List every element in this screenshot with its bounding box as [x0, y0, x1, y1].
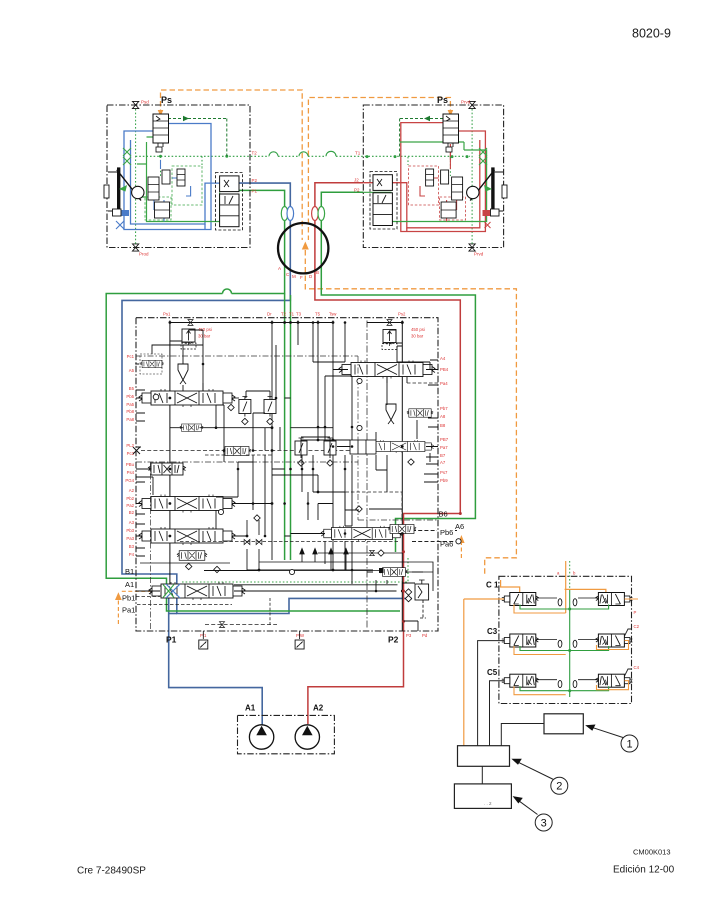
- main control valve: port labels left column: [125, 354, 134, 557]
- svg-text:B8: B8: [440, 423, 446, 428]
- valve: counterbalance right block: [370, 172, 397, 230]
- wire: straight travel supply loop: [204, 562, 433, 591]
- wire: orange feed to C1 row: [464, 580, 606, 599]
- svg-text:PfW: PfW: [296, 633, 305, 638]
- valve: boom spool row left: [139, 389, 239, 407]
- solenoid valve row C5 left: [502, 674, 539, 687]
- valve: Pc1 pilot valve: [135, 354, 163, 374]
- callout circle 2: [551, 777, 568, 794]
- svg-text:T1: T1: [355, 151, 361, 156]
- valve: center cartridge valves right block: [426, 169, 463, 218]
- svg-text:B6: B6: [439, 510, 448, 519]
- junction dots top manifold: [169, 321, 404, 324]
- svg-text:Pb8: Pb8: [126, 409, 134, 414]
- port labels B1 A1 Pb1 Pa1: [122, 567, 135, 615]
- symbol: green arrow into motor left: [118, 183, 127, 192]
- svg-text:A3: A3: [129, 520, 135, 525]
- valve: pressure compensators row left: [228, 397, 276, 425]
- wire: exit labels right block: [354, 151, 361, 193]
- solenoid valve row C5 right: [596, 674, 633, 687]
- main valve: T5 and Tsw risers: [298, 321, 333, 571]
- svg-text:P3: P3: [406, 633, 412, 638]
- main valve: secondary interconnect verticals: [203, 323, 430, 592]
- svg-text:A1: A1: [125, 580, 134, 589]
- svg-text:Pb6: Pb6: [440, 528, 453, 537]
- valve: swing spool row A3: [139, 527, 235, 545]
- valve: Ps4 spool: [149, 463, 186, 475]
- wire: black stub C2: [625, 629, 632, 636]
- svg-text:A6: A6: [455, 522, 464, 531]
- svg-text:. . 2: . . 2: [484, 801, 492, 806]
- labels C1 C3 C5: [486, 581, 499, 678]
- wire: black feed to C3 row: [478, 641, 506, 746]
- valve: relief left 450psi: [181, 320, 212, 349]
- solenoid valve row C3 left: [502, 634, 539, 647]
- svg-text:P2: P2: [354, 188, 360, 193]
- solenoid valve row C3 right: [596, 634, 633, 647]
- wire: red dashed boxes around cartridges right: [409, 166, 466, 220]
- valve Psd crossing left block top: [132, 100, 149, 109]
- wire: green tank riser T2 in main valve: [284, 294, 286, 561]
- labels A1 A2 pumps: [245, 704, 324, 713]
- svg-text:C 1: C 1: [486, 581, 499, 590]
- svg-text:Ps: Ps: [437, 95, 448, 105]
- component box 2: [458, 746, 510, 767]
- svg-text:T2: T2: [252, 151, 258, 156]
- svg-text:P2: P2: [252, 178, 258, 183]
- wire: green pilot dotted to A6 valve: [180, 558, 408, 582]
- junction dots main valve: [169, 321, 404, 592]
- main valve: top manifold line: [170, 322, 402, 324]
- wire: orange link row C5: [514, 681, 629, 695]
- svg-text:30 bar: 30 bar: [198, 334, 211, 339]
- symbol: green shuttle arrows left block: [123, 148, 131, 165]
- svg-text:Pa7: Pa7: [440, 445, 448, 450]
- svg-text:Pd: Pd: [422, 633, 428, 638]
- wire: green link row C1: [520, 605, 609, 610]
- svg-text:Ps: Ps: [161, 95, 172, 105]
- valve: arm spool row A2: [139, 495, 235, 513]
- valve: load check cone right: [386, 404, 396, 424]
- main valve: Dr riser: [271, 321, 273, 561]
- main valve: secondary interconnect horizontals: [136, 345, 438, 631]
- main control valve: port labels top: [163, 312, 406, 317]
- wire: green link row C3: [520, 646, 609, 651]
- wire: green pilot dashed Pi right block: [400, 119, 443, 157]
- pump A1: [249, 725, 273, 749]
- wire: green travel line left block across to main valve: [106, 190, 400, 611]
- valve: brake shuttle right block: [443, 114, 459, 152]
- valve: twin check bowties center bottom: [244, 520, 262, 570]
- svg-text:2: 2: [556, 781, 562, 793]
- svg-text:Pb7: Pb7: [440, 406, 448, 411]
- node labels C2 C4 P: [634, 610, 640, 670]
- svg-text:450 psi: 450 psi: [198, 327, 212, 332]
- svg-text:Pb1: Pb1: [122, 594, 135, 603]
- svg-text:B2: B2: [129, 510, 135, 515]
- orifices row C5: [536, 680, 599, 688]
- valve: small pilot spool left: [180, 424, 203, 431]
- svg-text:Ps2: Ps2: [398, 312, 406, 317]
- wire: green pilot dotted from Prvd down: [471, 109, 473, 244]
- svg-text:30 bar: 30 bar: [411, 334, 424, 339]
- wire: exit labels left block: [252, 151, 258, 194]
- symbol: blue arrows below brake left: [116, 221, 124, 229]
- wire: orange link row C1: [514, 599, 638, 613]
- symbol: check diamonds main valve: [254, 459, 414, 602]
- motor M-right swashplate: [467, 167, 507, 215]
- wire: PL2 pilot dashed row: [141, 450, 360, 452]
- valve: pilot reducing valve P2 side: [415, 580, 429, 618]
- valve: aux spool above A1: [140, 551, 230, 573]
- svg-text:T1: T1: [289, 312, 295, 317]
- valve: brake shuttle left block: [153, 114, 169, 152]
- wire: link box2 to box3: [481, 766, 483, 784]
- svg-text:Pa4: Pa4: [440, 381, 448, 386]
- svg-text:Cre 7-28490SP: Cre 7-28490SP: [77, 866, 146, 877]
- pump block: border: [238, 715, 335, 753]
- symbol: green shuttle arrows right block: [479, 148, 487, 165]
- svg-text:B3: B3: [129, 544, 135, 549]
- wire: pilot stubs a b above solenoid block: [557, 561, 576, 697]
- svg-text:Pa8: Pa8: [126, 417, 134, 422]
- symbol: green arrow into motor right: [484, 185, 492, 192]
- symbol: port circles on lines: [218, 378, 461, 574]
- svg-text:A: A: [278, 266, 281, 271]
- svg-text:P2: P2: [388, 635, 399, 645]
- orifices row C3: [536, 640, 599, 648]
- svg-text:Pb9: Pb9: [440, 478, 448, 483]
- wire: Ps7 pilot line with check: [318, 550, 403, 556]
- symbol: filter PfW: [295, 631, 304, 649]
- orifices row C1: [536, 598, 599, 606]
- svg-text:Dr: Dr: [267, 312, 272, 317]
- wire: green pilot dashed Pi left block: [168, 119, 227, 157]
- wire: pilot dash-dot internals: [136, 356, 438, 631]
- svg-text:P1: P1: [252, 189, 258, 194]
- svg-text:Pc1: Pc1: [127, 354, 135, 359]
- wire: orange pilot Pa1 stub with arrow: [118, 591, 160, 624]
- wire: green link row C5: [520, 686, 609, 691]
- page number 8020-9: [632, 27, 671, 41]
- main valve: center divider dash-dot: [366, 321, 368, 629]
- svg-text:A2: A2: [129, 488, 135, 493]
- valve: brake piston left block: [113, 209, 130, 216]
- wire: red motor loop outer right block: [363, 123, 485, 232]
- wire: orange link row C3: [514, 641, 629, 655]
- junction: hop bumps on T line: [269, 151, 336, 156]
- valve Prvd crossing right block bottom: [469, 244, 484, 257]
- wire: orange pilot Ps right to solenoid block (dashed): [308, 98, 450, 241]
- wire: red travel line right block to B6 and pump A2: [308, 183, 460, 724]
- wire: blue inner links left block: [154, 160, 191, 222]
- svg-text:Pa2: Pa2: [126, 503, 134, 508]
- wire: orange arrowhead into Ps valve left: [158, 110, 164, 117]
- label Ps right: [437, 95, 448, 105]
- motor M-left swashplate: [104, 167, 144, 215]
- main control valve: border: [136, 318, 438, 631]
- valve: travel left spool A1: [149, 582, 245, 600]
- valve: load check cone left: [178, 364, 188, 384]
- wire: blue pump line P1 to pump A1: [169, 598, 263, 727]
- valve: compensators right row: [295, 438, 336, 466]
- symbol: filter Pf1: [199, 631, 208, 649]
- svg-text:3: 3: [541, 818, 547, 830]
- valve: small valve right Pb7: [407, 409, 433, 417]
- svg-text:Prod: Prod: [139, 252, 149, 257]
- wire: orange pilot through swivel to solenoid block (dashed): [305, 250, 516, 576]
- wire: green motor loop right block: [363, 142, 486, 222]
- svg-text:1: 1: [626, 739, 632, 751]
- svg-text:8020-9: 8020-9: [632, 27, 671, 41]
- wire: green travel line right block to B6 area: [321, 192, 475, 552]
- junction dots on P2 riser: [402, 512, 462, 623]
- svg-text:C2: C2: [634, 624, 640, 629]
- svg-text:Pb2: Pb2: [126, 496, 134, 501]
- svg-text:J2: J2: [354, 178, 359, 183]
- symbol: red arrows below brake right: [485, 222, 491, 228]
- callout arrow 3: [513, 796, 538, 814]
- svg-text:Pb3: Pb3: [126, 528, 134, 533]
- svg-text:Prvd: Prvd: [474, 252, 484, 257]
- callout arrow 2: [511, 759, 553, 780]
- valve: brake piston right block: [483, 209, 500, 216]
- footer Edicion 12-00: [613, 865, 675, 876]
- component box 1: [544, 714, 583, 734]
- svg-text:T5: T5: [315, 312, 321, 317]
- main valve: interconnect lines: [136, 330, 438, 591]
- wire: Pb6 Pa6 pilot dashes: [412, 531, 457, 542]
- component box 3: [454, 784, 511, 809]
- svg-text:A5: A5: [129, 368, 135, 373]
- svg-text:F: F: [300, 275, 303, 280]
- valve: counterbalance left block: [216, 173, 243, 231]
- junction: swivel loops on travel lines: [281, 207, 324, 221]
- swivel joint circle: [278, 223, 328, 273]
- footer Cre 7-28490SP: [77, 866, 146, 877]
- svg-text:P4: P4: [129, 552, 135, 557]
- wire: orange arrowhead in swivel: [302, 242, 309, 250]
- svg-text:A1: A1: [245, 704, 256, 713]
- footer CM00K013: [633, 848, 671, 857]
- wire: black link box1 to solenoid block: [501, 724, 544, 746]
- main control valve: bottom labels P1 P2: [166, 635, 399, 645]
- svg-text:Pa1: Pa1: [122, 606, 135, 615]
- svg-text:Prvd: Prvd: [461, 100, 471, 105]
- svg-text:Ps1: Ps1: [163, 312, 171, 317]
- svg-text:C3: C3: [487, 627, 498, 636]
- svg-text:A2: A2: [313, 704, 324, 713]
- svg-text:Pa5: Pa5: [126, 402, 134, 407]
- svg-text:PBu: PBu: [126, 462, 135, 467]
- symbol: pilot check arrows row: [300, 549, 348, 571]
- wire: black feed to C5 row: [490, 681, 507, 746]
- wire: blue travel line left block to main valve P1 side: [122, 183, 412, 613]
- svg-text:Tsw: Tsw: [329, 312, 337, 317]
- wire: green motor loop left block: [134, 131, 220, 222]
- wire: green tank riser T1 in main valve: [290, 295, 292, 560]
- valve: dipper spool row right: [350, 440, 434, 454]
- svg-text:T3: T3: [296, 312, 302, 317]
- wire: pilot dashed internals: [136, 383, 438, 605]
- wire: orange pilot Ps left (dashed): [161, 90, 303, 240]
- wire: green dashed boxes around cartridges left: [145, 166, 202, 220]
- wire: green pilot dotted inner right block: [408, 157, 450, 176]
- svg-text:C4: C4: [634, 665, 640, 670]
- port labels B6 A6 Pb6 Pa6: [439, 510, 465, 549]
- svg-text:B5: B5: [129, 386, 135, 391]
- svg-text:P1: P1: [166, 635, 177, 645]
- main valve: P1 supply riser: [169, 321, 171, 586]
- node labels at swivel ports: [278, 266, 319, 280]
- svg-text:A7: A7: [440, 460, 446, 465]
- valve: bucket spool row right top: [339, 361, 435, 379]
- solenoid valve row C1 right: [596, 593, 633, 606]
- wire: green pilot dotted inner left block: [161, 156, 203, 176]
- svg-text:PB7: PB7: [440, 437, 449, 442]
- svg-text:Psd: Psd: [141, 100, 149, 105]
- valve: relief right 450psi: [382, 320, 425, 350]
- valve: PL2 spool: [223, 447, 251, 456]
- wire: green pilot dotted T2-T1 between travel blocks: [136, 155, 470, 157]
- wire: orange feed from pressure switch box: [463, 599, 465, 746]
- wire: bottom pilot dashed row with bowtie: [205, 598, 277, 627]
- svg-text:PG4: PG4: [125, 478, 134, 483]
- svg-text:T2: T2: [281, 312, 287, 317]
- travel motor block right: border: [363, 105, 503, 248]
- main control valve: port labels right column: [440, 356, 449, 483]
- valve: B6 spool row: [321, 526, 403, 541]
- valve Prod crossing left block bottom: [132, 244, 149, 257]
- svg-text:A4: A4: [440, 356, 446, 361]
- svg-text:B1: B1: [125, 567, 134, 576]
- svg-text:Ps4: Ps4: [127, 470, 135, 475]
- svg-text:450 psi: 450 psi: [411, 327, 425, 332]
- svg-text:B7: B7: [440, 453, 446, 458]
- valve Prvd crossing right block top: [461, 100, 475, 109]
- travel motor block left: border: [107, 105, 250, 248]
- wire: red inner links right block: [420, 160, 457, 222]
- svg-text:Pa3: Pa3: [126, 536, 134, 541]
- svg-text:PB4: PB4: [440, 367, 449, 372]
- junction dots green center: [568, 608, 571, 693]
- valve: center cartridge valves left block: [148, 169, 185, 218]
- wire: blue motor loop outer left block: [124, 124, 239, 230]
- junction dots secondary: [202, 321, 378, 592]
- svg-text:B: B: [316, 270, 319, 275]
- junction dots on T1 line: [159, 155, 469, 158]
- wire: orange arrowhead into Ps valve right: [448, 110, 454, 117]
- label Ps left: [161, 95, 172, 105]
- svg-text:Edición 12-00: Edición 12-00: [613, 865, 675, 876]
- wire: orange pilot A6 stub with arrow: [460, 542, 462, 558]
- pump A2: [295, 725, 319, 749]
- wire: black stub C4: [625, 669, 632, 676]
- callout circle 1: [621, 735, 638, 752]
- svg-text:M: M: [292, 274, 296, 279]
- valve: straight travel spool: [379, 568, 407, 577]
- svg-text:Pa6: Pa6: [440, 540, 453, 549]
- solenoid valve block: border: [499, 576, 632, 703]
- svg-text:A8: A8: [440, 414, 446, 419]
- wire: green pilot dotted from Psd down: [135, 109, 137, 244]
- callout arrow 1: [585, 725, 626, 739]
- svg-text:C5: C5: [487, 668, 498, 677]
- svg-text:Pb5: Pb5: [126, 394, 134, 399]
- main valve: P2 supply riser: [401, 321, 403, 632]
- svg-text:Ps7: Ps7: [440, 470, 448, 475]
- svg-text:CM00K013: CM00K013: [633, 848, 671, 857]
- solenoid valve row C1 left: [502, 593, 539, 606]
- svg-text:P: P: [634, 610, 637, 615]
- callout circle 3: [535, 814, 552, 831]
- valve: A6 shuttle: [388, 525, 416, 534]
